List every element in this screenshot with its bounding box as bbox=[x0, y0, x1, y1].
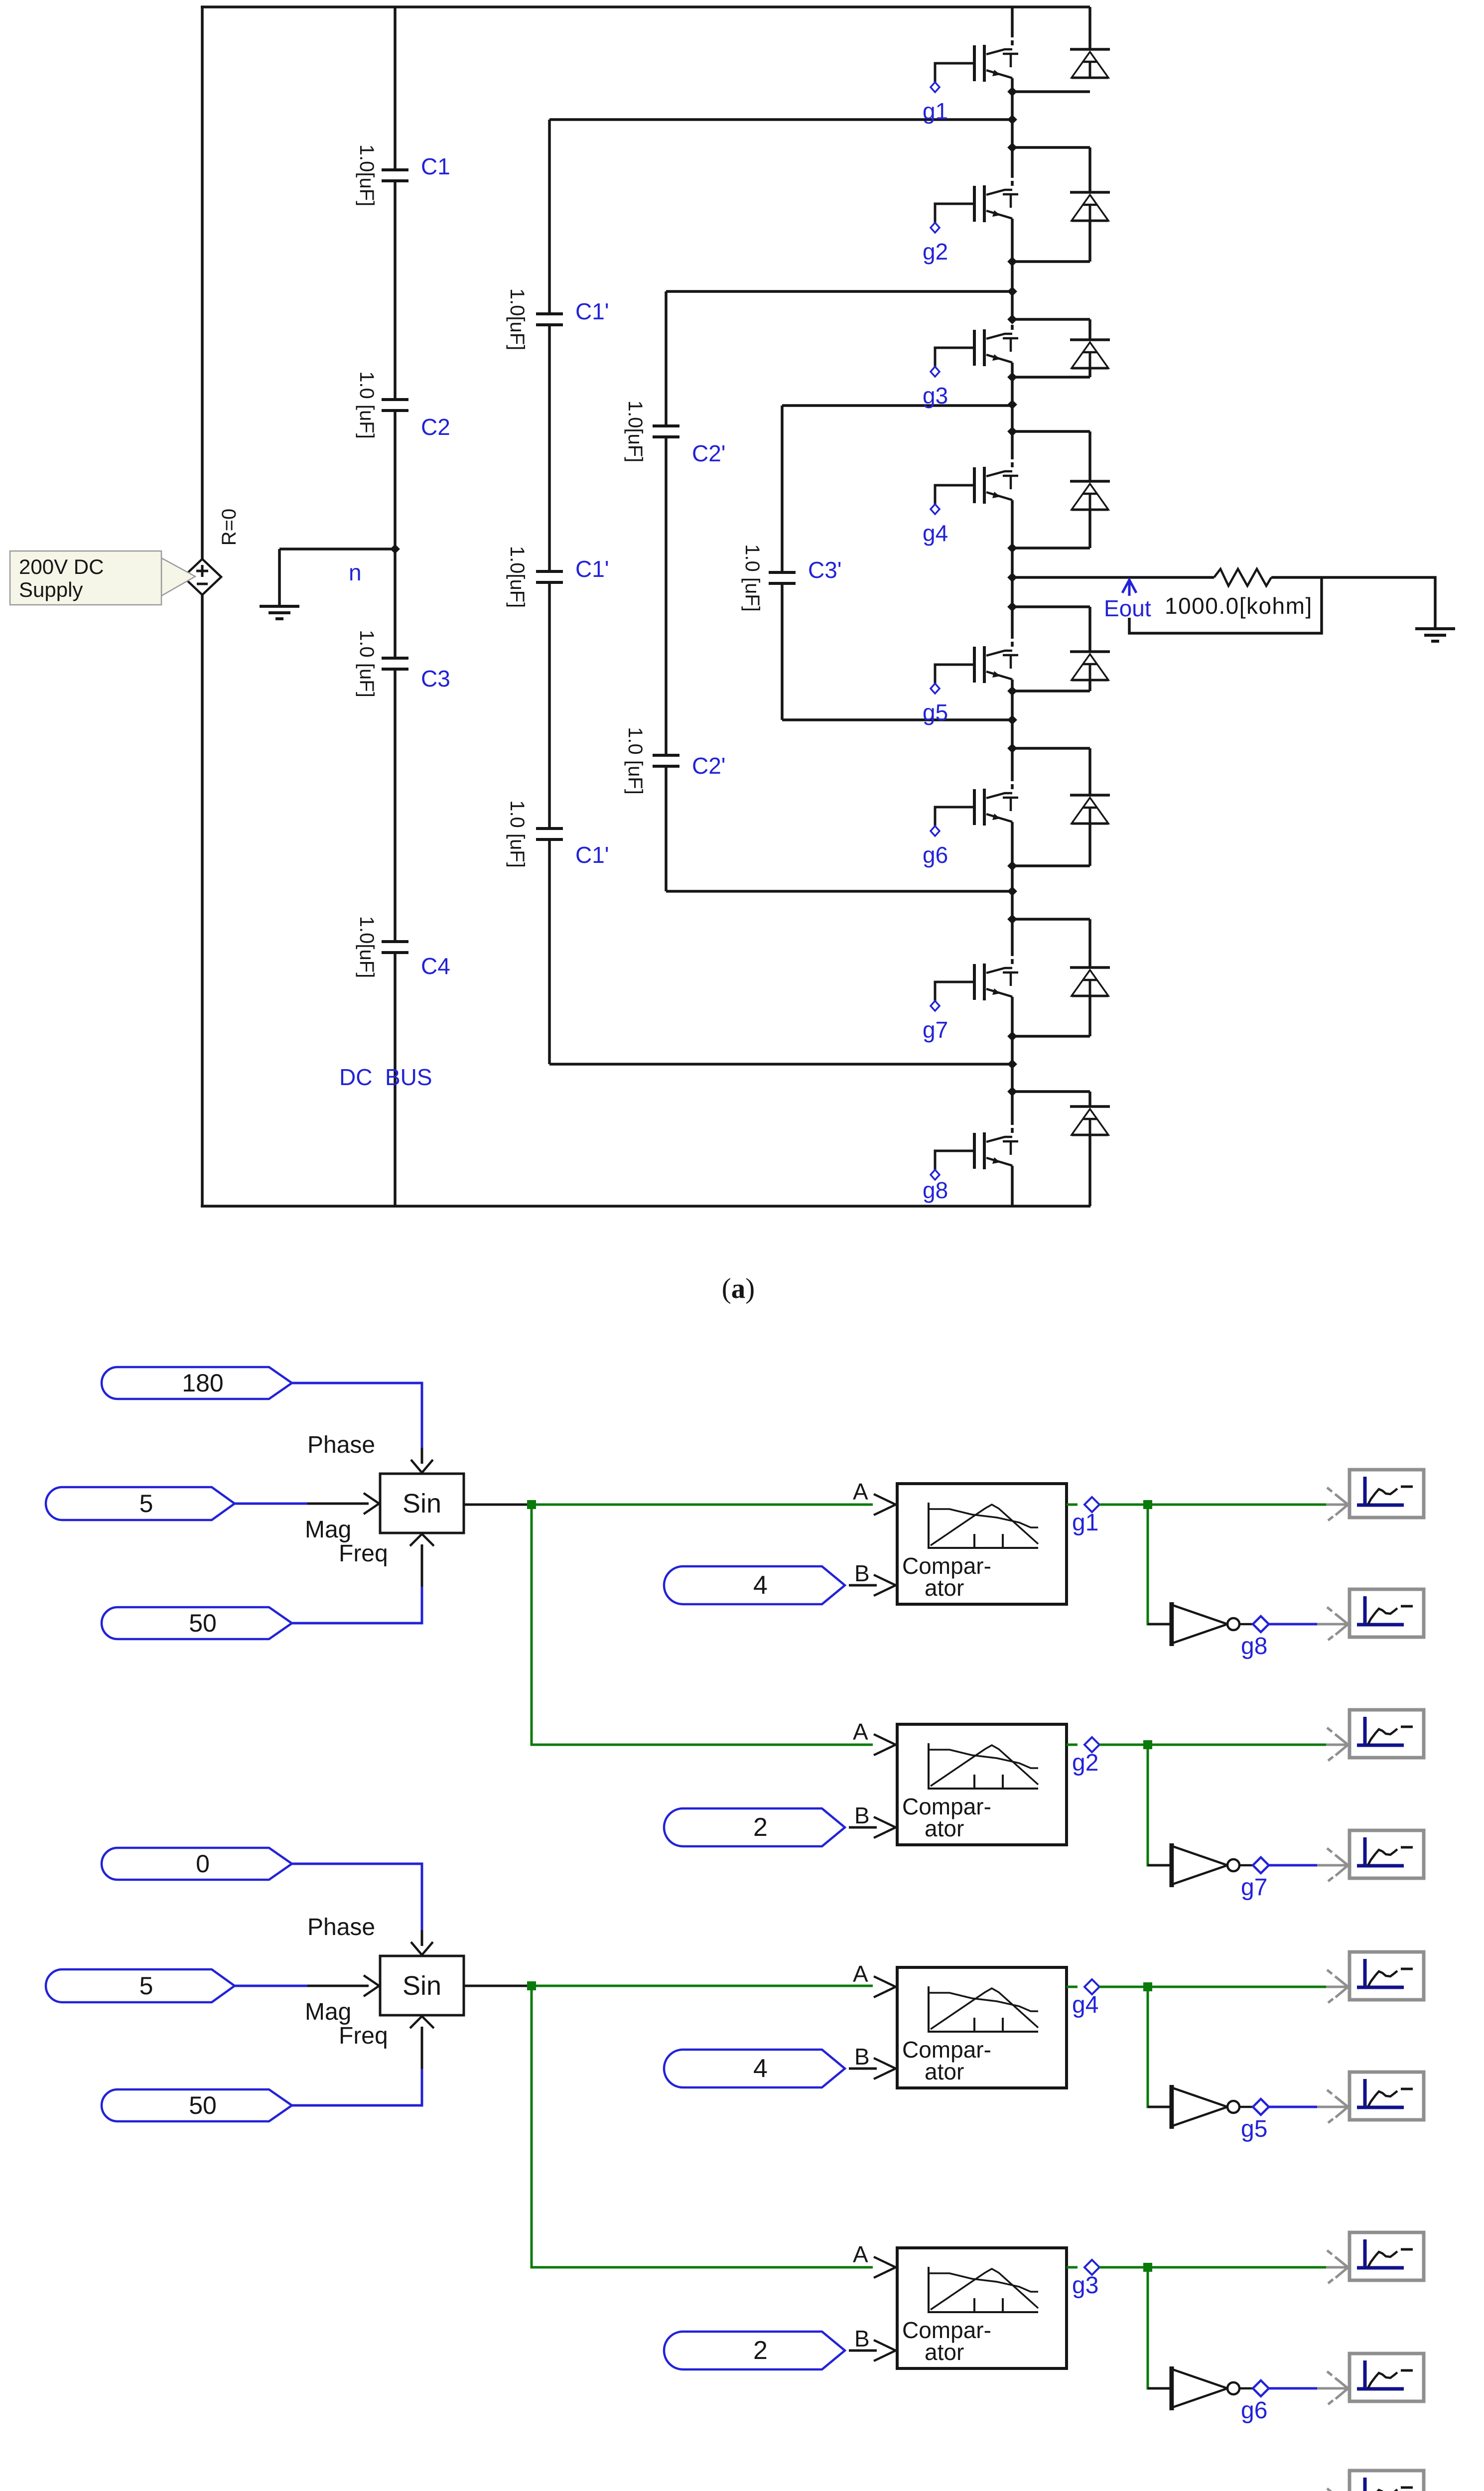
svg-text:g7: g7 bbox=[1241, 1874, 1267, 1901]
svg-text:Sin: Sin bbox=[403, 1971, 441, 2001]
svg-text:C1': C1' bbox=[575, 298, 609, 324]
wire: C1' bus vertical bbox=[548, 120, 551, 1064]
junction dot output 3 bbox=[1143, 1982, 1152, 1991]
svg-text:g3: g3 bbox=[923, 383, 948, 409]
wire: switch chain vertical segments bbox=[1011, 7, 1014, 1206]
svg-text:g5: g5 bbox=[923, 699, 948, 725]
wire: DC bus vertical (C1-C4 string) bbox=[394, 7, 397, 1206]
svg-text:1000.0[kohm]: 1000.0[kohm] bbox=[1165, 593, 1313, 619]
wire: C2' bus vertical bbox=[665, 291, 668, 891]
IGBT g8 bbox=[923, 1132, 1018, 1203]
svg-text:ator: ator bbox=[925, 2339, 964, 2365]
wire: output 2 down to inverter (green) bbox=[1148, 1745, 1172, 1865]
wire: left rail upper segment bbox=[201, 7, 204, 559]
svg-text:200V DC: 200V DC bbox=[19, 555, 104, 578]
junction dot tap 5 bbox=[1007, 715, 1017, 725]
wire: 50 to Sin2 freq input bbox=[292, 2069, 422, 2105]
junction dot tap 1 bbox=[1007, 115, 1017, 125]
svg-text:g3: g3 bbox=[1072, 2272, 1098, 2299]
wire: left rail lower segment bbox=[201, 595, 204, 1206]
svg-text:5: 5 bbox=[139, 1972, 153, 2000]
svg-text:C2: C2 bbox=[421, 414, 450, 440]
wire: C3' bus top horizontal to chain bbox=[782, 404, 1012, 407]
wire: inverter 2 output (blue) bbox=[1269, 1864, 1317, 1867]
wire: C2' bus bottom horizontal to chain bbox=[666, 890, 1012, 893]
IGBT g6 bbox=[923, 789, 1018, 868]
svg-text:C1': C1' bbox=[575, 556, 609, 582]
wire: C3' bus bottom horizontal to chain bbox=[782, 718, 1012, 721]
svg-text:C3: C3 bbox=[421, 666, 450, 692]
IGBT g7 bbox=[923, 964, 1018, 1043]
wire: C3' bus vertical bbox=[781, 406, 784, 720]
IGBT g2 bbox=[923, 185, 1018, 265]
output port diamond comparator 2 bbox=[1067, 1744, 1078, 1746]
wire: diode D2 cathode feed at y=296 bbox=[1012, 146, 1090, 149]
svg-text:4: 4 bbox=[753, 2054, 768, 2083]
source tag 5 (magnitude) bbox=[46, 1487, 235, 1520]
svg-text:ator: ator bbox=[925, 1815, 964, 1841]
comparator 1 block bbox=[897, 1484, 1067, 1604]
junction dot emitter g5 bbox=[1007, 686, 1017, 696]
svg-text:g2: g2 bbox=[923, 239, 948, 265]
junction dot diode-top 4 bbox=[1007, 602, 1017, 612]
svg-text:B: B bbox=[854, 1560, 870, 1586]
svg-text:C1: C1 bbox=[421, 153, 450, 179]
inverter NOT gate g6 bbox=[1172, 2366, 1269, 2410]
scope meter for g5 bbox=[1317, 2106, 1326, 2108]
svg-text:1.0[uF]: 1.0[uF] bbox=[624, 401, 646, 463]
wire: diode D3 anode return at y=757 bbox=[1012, 376, 1090, 379]
svg-text:Mag: Mag bbox=[305, 1517, 351, 1543]
svg-text:B: B bbox=[854, 2044, 870, 2070]
capacitor C1' (top) 1.0[uF] bbox=[506, 288, 609, 351]
IGBT g3 bbox=[923, 329, 1018, 409]
scope meter for g6 bbox=[1317, 2387, 1326, 2390]
junction dot emitter g3 bbox=[1007, 372, 1017, 382]
capacitor C2' (bottom) 1.0 [uF] bbox=[624, 727, 726, 795]
capacitor C1 1.0[uF] bbox=[356, 144, 450, 207]
Sin1 block bbox=[380, 1474, 464, 1533]
svg-text:g4: g4 bbox=[1072, 1992, 1098, 2018]
svg-text:1.0 [uF]: 1.0 [uF] bbox=[741, 544, 763, 612]
wire: diode D5 anode return at y=1387 bbox=[1012, 690, 1090, 692]
svg-text:C2': C2' bbox=[692, 440, 726, 466]
svg-text:g2: g2 bbox=[1072, 1750, 1098, 1776]
junction dot output 1 bbox=[1143, 1500, 1152, 1509]
ground at load bbox=[1415, 629, 1455, 641]
junction dot tap 4 bbox=[1007, 572, 1017, 582]
svg-text:0: 0 bbox=[196, 1850, 210, 1878]
junction dot emitter g2 bbox=[1007, 257, 1017, 267]
diode D7 bbox=[1088, 919, 1091, 968]
svg-text:C3': C3' bbox=[808, 557, 842, 583]
wire: diode D7 anode return at y=2080 bbox=[1012, 1035, 1090, 1038]
svg-text:180: 180 bbox=[182, 1369, 223, 1397]
wire: neutral n from ground to DC bus bbox=[279, 548, 395, 551]
wire: comparator 3 output (green) bbox=[1099, 1986, 1326, 1988]
svg-text:g4: g4 bbox=[923, 520, 948, 546]
junction dot Sin2 output bbox=[527, 1981, 536, 1990]
source tag 180 (phase) bbox=[102, 1367, 292, 1399]
capacitor C4 1.0[uF] bbox=[356, 916, 450, 979]
svg-text:1.0 [uF]: 1.0 [uF] bbox=[506, 800, 528, 868]
svg-text:1.0 [uF]: 1.0 [uF] bbox=[356, 630, 378, 697]
capacitor C3' 1.0 [uF] bbox=[741, 544, 842, 612]
svg-text:Sin: Sin bbox=[403, 1489, 441, 1519]
output port diamond comparator 4 bbox=[1067, 2266, 1078, 2269]
capacitor C1' (middle) 1.0[uF] bbox=[506, 546, 609, 608]
wire: 0 to Sin2 phase input bbox=[292, 1864, 422, 1930]
svg-text:g1: g1 bbox=[1072, 1510, 1098, 1536]
diode D2 bbox=[1088, 147, 1091, 192]
scope meter for g2 bbox=[1099, 1744, 1326, 1746]
svg-text:Freq: Freq bbox=[339, 2023, 388, 2049]
diode D4 bbox=[1088, 431, 1091, 481]
svg-text:4: 4 bbox=[753, 1571, 768, 1600]
junction dot diode-top 7 bbox=[1007, 1087, 1017, 1097]
svg-text:A: A bbox=[853, 1719, 868, 1745]
svg-text:Freq: Freq bbox=[339, 1540, 388, 1567]
svg-text:R=0: R=0 bbox=[218, 509, 240, 546]
junction dot tap 7 bbox=[1007, 1059, 1017, 1069]
svg-text:1.0 [uF]: 1.0 [uF] bbox=[624, 727, 646, 795]
source tag 50 (frequency) bbox=[102, 1607, 292, 1639]
scope meter for g4 bbox=[1099, 1986, 1326, 1988]
wire: diode D6 cathode feed at y=1502 bbox=[1012, 747, 1090, 750]
svg-text:Phase: Phase bbox=[307, 1432, 375, 1458]
diode D5 bbox=[1088, 607, 1091, 652]
svg-text:1.0[uF]: 1.0[uF] bbox=[506, 288, 528, 351]
svg-text:1.0 [uF]: 1.0 [uF] bbox=[356, 371, 378, 439]
junction dot emitter g4 bbox=[1007, 543, 1017, 553]
svg-text:2: 2 bbox=[753, 1813, 768, 1842]
inverter NOT gate g7 bbox=[1172, 1843, 1269, 1887]
constant tag 2 to comparator 4 B bbox=[664, 2332, 845, 2369]
wire: 5 to Sin2 mag input bbox=[235, 1985, 307, 1987]
svg-text:C1': C1' bbox=[575, 842, 609, 868]
svg-text:g6: g6 bbox=[1241, 2397, 1267, 2424]
svg-text:g1: g1 bbox=[923, 98, 948, 124]
wire: inverter 1 output (blue) bbox=[1269, 1623, 1317, 1626]
svg-text:A: A bbox=[853, 2241, 868, 2267]
inverter NOT gate g5 bbox=[1172, 2085, 1269, 2129]
wire: 180 to Sin1 phase input bbox=[292, 1383, 422, 1448]
junction dot diode-top 5 bbox=[1007, 743, 1017, 753]
svg-text:A: A bbox=[853, 1479, 868, 1505]
capacitor C2 1.0 [uF] bbox=[356, 371, 450, 440]
comparator 2 block bbox=[897, 1724, 1067, 1845]
wire: comparator 1 output (green) bbox=[1099, 1504, 1326, 1506]
wire: Sin2 down to comparator4 A (green) bbox=[532, 1986, 873, 2267]
IGBT g4 bbox=[923, 467, 1018, 546]
wire: diode D4 cathode feed at y=866 bbox=[1012, 430, 1090, 433]
wire: comparator 2 output (green) bbox=[1099, 1744, 1326, 1746]
wire: diode D4 anode return at y=1100 bbox=[1012, 547, 1090, 550]
wire: 50 to Sin1 freq input bbox=[292, 1587, 422, 1623]
wire: Sin2 output bbox=[464, 1985, 532, 1987]
inverter NOT gate g8 bbox=[1172, 1602, 1269, 1646]
junction dot emitter g7 bbox=[1007, 1031, 1017, 1041]
svg-text:Mag: Mag bbox=[305, 1999, 351, 2025]
wire: Sin1 output bbox=[464, 1504, 532, 1506]
svg-text:2: 2 bbox=[753, 2336, 768, 2365]
junction dot tap 6 bbox=[1007, 886, 1017, 896]
svg-text:5: 5 bbox=[139, 1490, 153, 1518]
comparator 3 block bbox=[897, 1967, 1067, 2088]
svg-text:C4: C4 bbox=[421, 953, 450, 979]
wire: C1' bus bottom horizontal to chain bbox=[549, 1063, 1012, 1066]
svg-text:1.0[uF]: 1.0[uF] bbox=[356, 144, 378, 207]
capacitor C3 1.0 [uF] bbox=[356, 630, 450, 697]
wire: bottom DC rail bbox=[201, 1205, 1090, 1208]
node n junction dot bbox=[390, 544, 400, 554]
svg-text:B: B bbox=[854, 1802, 870, 1828]
output port diamond comparator 1 bbox=[1067, 1504, 1078, 1506]
wire: diode D2 anode return at y=525 bbox=[1012, 260, 1090, 263]
constant tag 2 to comparator 2 B bbox=[664, 1808, 845, 1846]
comparator 4 block bbox=[897, 2248, 1067, 2368]
junction dot emitter g1 bbox=[1007, 87, 1017, 97]
wire: diode D5 cathode feed at y=1218 bbox=[1012, 605, 1090, 608]
wire: diode D3 cathode feed at y=641 bbox=[1012, 318, 1090, 321]
wire: Sin2 to comparator3 A (green) bbox=[532, 1985, 873, 1987]
wire: diode D1 anode return at y=184 bbox=[1012, 90, 1090, 93]
svg-text:B: B bbox=[854, 2326, 870, 2352]
junction dot diode-top 6 bbox=[1007, 914, 1017, 924]
diode D6 bbox=[1088, 748, 1091, 795]
wire: diode D7 cathode feed at y=1845 bbox=[1012, 918, 1090, 921]
DC source V1 (200V DC Supply) diamond symbol bbox=[183, 559, 221, 595]
svg-text:50: 50 bbox=[189, 2091, 217, 2119]
IGBT g5 bbox=[923, 646, 1018, 725]
diode D3 bbox=[1088, 319, 1091, 340]
svg-text:1.0[uF]: 1.0[uF] bbox=[356, 916, 378, 978]
svg-text:g7: g7 bbox=[923, 1017, 948, 1043]
junction dot Sin1 output bbox=[527, 1500, 536, 1509]
svg-text:n: n bbox=[349, 559, 362, 585]
wire: inverter 4 output (blue) bbox=[1269, 2387, 1317, 2390]
callout: 200V DC Supply bbox=[10, 551, 195, 605]
capacitor C1' (bottom) 1.0 [uF] bbox=[506, 800, 609, 868]
junction dot tap 3 bbox=[1007, 400, 1017, 410]
source tag 0 (phase) bbox=[102, 1848, 292, 1880]
junction dot output 2 bbox=[1143, 1740, 1152, 1749]
source tag 50 (frequency) second bbox=[102, 2089, 292, 2121]
junction dot diode-top 2 bbox=[1007, 314, 1017, 324]
junction dot output 4 bbox=[1143, 2263, 1152, 2272]
junction dot emitter g6 bbox=[1007, 861, 1017, 871]
junction dot diode-top 3 bbox=[1007, 426, 1017, 436]
Eout probe arrow bbox=[1122, 580, 1136, 596]
svg-text:g8: g8 bbox=[1241, 1633, 1267, 1660]
capacitor C2' (top) 1.0[uF] bbox=[624, 401, 726, 466]
constant tag 4 to comparator 1 B bbox=[664, 1566, 845, 1604]
resistor R load 1000.0[kohm] bbox=[1214, 569, 1271, 586]
svg-text:C2': C2' bbox=[692, 753, 726, 779]
output port diamond comparator 3 bbox=[1067, 1986, 1078, 1988]
scope meter for g7 bbox=[1317, 1864, 1326, 1867]
junction dot diode-top 1 bbox=[1007, 142, 1017, 152]
scope meter for g1 bbox=[1099, 1504, 1326, 1506]
diode D8 bbox=[1088, 1092, 1091, 1107]
wire: output node to resistor bbox=[1012, 576, 1214, 579]
wire: resistor to ground corner bbox=[1271, 577, 1435, 629]
wire: output 4 down to inverter (green) bbox=[1148, 2267, 1172, 2388]
IGBT g1 bbox=[923, 45, 1018, 124]
svg-text:Phase: Phase bbox=[307, 1914, 375, 1940]
wire: inverter 3 output (blue) bbox=[1269, 2106, 1317, 2108]
svg-text:50: 50 bbox=[189, 1609, 217, 1637]
wire: output 3 down to inverter (green) bbox=[1148, 1987, 1172, 2107]
wire: C2' bus top horizontal to chain bbox=[666, 290, 1012, 293]
wire: 5 to Sin1 mag input bbox=[235, 1503, 307, 1505]
source tag 5 (magnitude) second bbox=[46, 1969, 235, 2002]
scope meter for g8 bbox=[1317, 1623, 1326, 1626]
svg-text:DC BUS: DC BUS bbox=[339, 1064, 432, 1090]
constant tag 4 to comparator 3 B bbox=[664, 2050, 845, 2087]
scope meter for g3 bbox=[1099, 2266, 1326, 2269]
ground at node n bbox=[278, 549, 281, 606]
diode D1 bbox=[1088, 7, 1091, 49]
wire: output 1 down to inverter (green) bbox=[1148, 1505, 1172, 1624]
svg-text:(a): (a) bbox=[722, 1273, 755, 1304]
wire: diode D6 anode return at y=1738 bbox=[1012, 864, 1090, 867]
svg-text:1.0[uF]: 1.0[uF] bbox=[506, 546, 528, 608]
wire: diode D8 cathode feed at y=2191 bbox=[1012, 1090, 1090, 1093]
wire: Eout measurement loop bbox=[1129, 577, 1322, 633]
svg-text:g8: g8 bbox=[923, 1177, 948, 1203]
svg-text:ator: ator bbox=[925, 2059, 964, 2084]
wire: Sin1 down to comparator2 A (green) bbox=[532, 1505, 873, 1745]
svg-text:Supply: Supply bbox=[19, 578, 83, 601]
svg-text:g6: g6 bbox=[923, 842, 948, 868]
wire: top DC rail bbox=[201, 5, 1090, 8]
wire: comparator 4 output (green) bbox=[1099, 2266, 1326, 2269]
svg-text:ator: ator bbox=[925, 1575, 964, 1601]
svg-text:g5: g5 bbox=[1241, 2116, 1267, 2142]
svg-text:A: A bbox=[853, 1961, 868, 1987]
junction dot tap 2 bbox=[1007, 286, 1017, 296]
wire: C1' bus top horizontal to chain bbox=[549, 118, 1012, 121]
svg-text:Eout: Eout bbox=[1104, 595, 1151, 621]
wire: Sin1 to comparator1 A (green) bbox=[532, 1504, 873, 1506]
Sin2 block bbox=[380, 1956, 464, 2015]
